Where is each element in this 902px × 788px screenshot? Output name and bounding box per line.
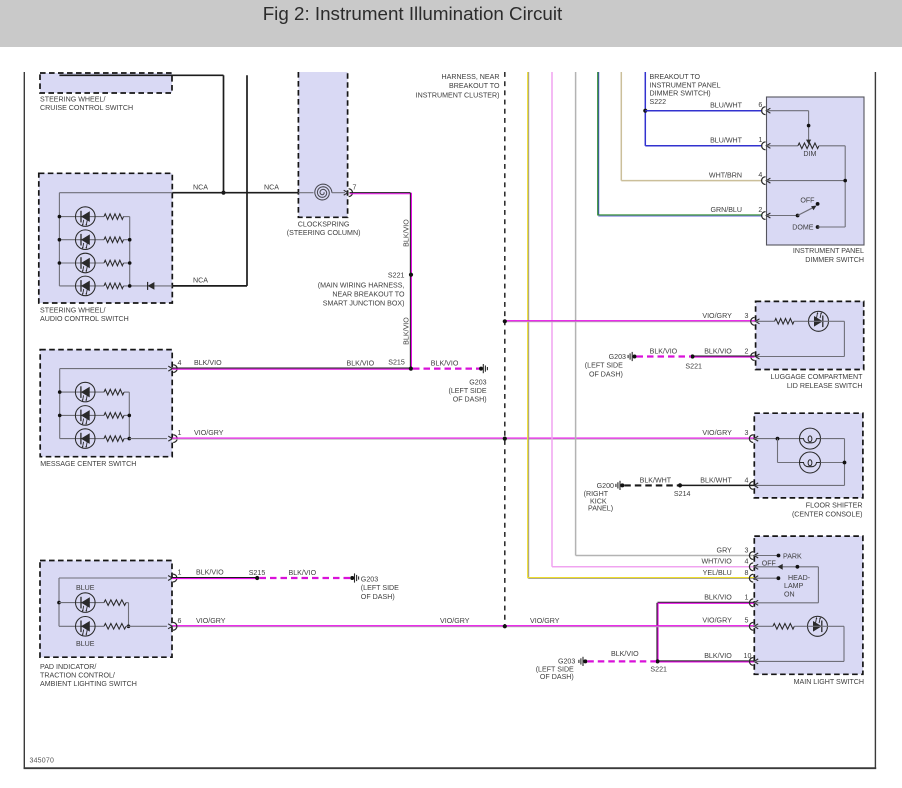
svg-text:S221: S221 (650, 666, 667, 674)
svg-text:BLK/VIO: BLK/VIO (289, 569, 317, 577)
svg-text:S221: S221 (685, 362, 702, 370)
dimmer pin 6 connector (762, 107, 766, 115)
svg-text:6: 6 (758, 101, 762, 109)
node VIO/GRY junction bottom (503, 624, 507, 628)
svg-text:BLU/WHT: BLU/WHT (710, 101, 743, 109)
wire BLK/VIO dashed bottom (587, 660, 656, 662)
resistor dimmer DIM (798, 143, 819, 149)
main pin 1 connector (749, 599, 753, 607)
message right bus junction row2 (128, 414, 132, 418)
dimmer OFF contact (816, 202, 820, 206)
wire BLK/VIO main pin1 vertical (656, 603, 658, 662)
svg-text:VIO/GRY: VIO/GRY (702, 429, 732, 437)
ground G203 pad (350, 576, 354, 580)
clockspring coil (315, 184, 332, 200)
audio LED row 4 wire (59, 285, 104, 287)
svg-text:MAIN LIGHT SWITCH: MAIN LIGHT SWITCH (794, 678, 864, 686)
ground G203 luggage (633, 355, 637, 359)
svg-text:S214: S214 (674, 490, 691, 498)
pad LED1 row wire (59, 602, 104, 604)
resistor message row 2 (104, 413, 124, 419)
floor right bus junction (843, 461, 847, 465)
node S221 splice luggage (690, 354, 694, 358)
wire BLU/WHT to dimmer pin 1 (645, 145, 762, 147)
svg-text:7: 7 (353, 184, 357, 192)
luggage inner wire pin2 (756, 356, 845, 358)
wire BLK/VIO clockspring horizontal (350, 192, 411, 194)
audio left bus junction (58, 215, 62, 219)
svg-text:Fig 2: Instrument Illumination: Fig 2: Instrument Illumination Circuit (263, 3, 563, 24)
svg-text:ON: ON (784, 590, 795, 598)
svg-text:CLOCKSPRING: CLOCKSPRING (298, 220, 350, 228)
bulb floor 2 (800, 452, 821, 473)
diode audio output (148, 282, 155, 290)
main pin 5 connector (749, 622, 753, 630)
pad indicator/traction control/ambient lighting switch block (40, 561, 172, 658)
dimmer pin4 bus junction (843, 179, 847, 183)
dimmer inner wiper vertical (808, 111, 810, 141)
main inner pin5 wire (754, 625, 773, 627)
dimmer blade arrow (811, 206, 817, 211)
resistor audio row 2 (104, 237, 124, 243)
svg-text:OF DASH): OF DASH) (453, 396, 487, 404)
main inner pin1 wire (754, 602, 818, 604)
audio switch inner bus left (58, 193, 60, 286)
svg-text:DIMMER SWITCH: DIMMER SWITCH (805, 256, 864, 264)
svg-text:YEL/BLU: YEL/BLU (703, 569, 732, 577)
svg-text:BLU/WHT: BLU/WHT (710, 136, 743, 144)
svg-text:3: 3 (745, 546, 749, 554)
svg-text:PAD INDICATOR/: PAD INDICATOR/ (40, 663, 96, 671)
node S215 splice pad (255, 576, 259, 580)
LED message row 2 (75, 406, 95, 426)
svg-text:VIO/GRY: VIO/GRY (440, 617, 470, 625)
resistor audio row 3 (104, 260, 124, 266)
LED audio row 3 (76, 253, 96, 273)
audio LED row 2 wire (59, 239, 104, 241)
svg-text:1: 1 (178, 429, 182, 437)
resistor pad row2 (104, 624, 126, 630)
pad pin 1 connector (173, 574, 177, 582)
dimmer inner pin1 wire (767, 145, 798, 147)
dimmer pin 4 connector (762, 177, 766, 185)
svg-text:1: 1 (745, 594, 749, 602)
svg-text:PANEL): PANEL) (588, 505, 613, 513)
wire GRN/BLU to dimmer pin 2 (598, 214, 762, 216)
node VIO/GRY junction at breakout (503, 437, 507, 441)
luggage right bus (843, 321, 845, 356)
svg-text:BLK/VIO: BLK/VIO (402, 219, 410, 247)
wire YEL/BLU vertical (527, 72, 529, 578)
svg-text:NCA: NCA (193, 183, 208, 191)
frame bottom border (24, 767, 877, 769)
node VIO/GRY luggage junction (503, 319, 507, 323)
svg-text:S222: S222 (650, 98, 667, 106)
svg-text:BREAKOUT TO: BREAKOUT TO (650, 73, 701, 81)
svg-text:BLK/VIO: BLK/VIO (704, 347, 732, 355)
wire BLK/VIO to main pin 1 horizontal (658, 601, 755, 603)
main HEADLAMP contact (777, 576, 781, 580)
floor inner wire bulb2 right (821, 462, 845, 464)
wire cruise switch NCA vertical (223, 75, 225, 192)
floor pin 4 connector (749, 482, 753, 490)
dimmer switch pivot (796, 214, 800, 218)
svg-text:S215: S215 (388, 359, 405, 367)
luggage inner wire to LED (794, 320, 809, 322)
main light switch block (754, 536, 863, 674)
ground G203 at S215 (479, 367, 483, 371)
bulb floor 1 (800, 428, 821, 449)
wire WHT/VIO vertical (551, 72, 553, 567)
wire WHT/BRN vertical (620, 72, 622, 181)
dimmer DOME contact (816, 225, 820, 229)
svg-text:BLK/VIO: BLK/VIO (704, 652, 732, 660)
main right bus vertical (817, 567, 819, 603)
main pin 4 connector (749, 563, 753, 571)
node S221 splice bottom (655, 659, 659, 663)
main pin 3 connector (749, 552, 753, 560)
svg-text:INSTRUMENT PANEL: INSTRUMENT PANEL (650, 81, 721, 89)
main inner wire LED to bus (828, 625, 845, 627)
resistor message row 3 (104, 436, 124, 442)
wire VIO/GRY pad to main pin 5 (172, 625, 754, 627)
svg-text:S215: S215 (249, 569, 266, 577)
wire cruise switch NCA horizontal (59, 74, 223, 76)
svg-text:WHT/VIO: WHT/VIO (701, 558, 732, 566)
wire WHT/VIO to main pin 4 (552, 566, 754, 568)
svg-text:(LEFT SIDE: (LEFT SIDE (448, 387, 486, 395)
svg-text:OF DASH): OF DASH) (589, 370, 623, 378)
svg-text:CRUISE CONTROL SWITCH: CRUISE CONTROL SWITCH (40, 104, 133, 112)
message right bus junction row3 (128, 437, 132, 441)
floor left bus (777, 439, 779, 463)
message center left bus junction row2 (58, 414, 62, 418)
svg-text:BLK/VIO: BLK/VIO (196, 569, 224, 577)
svg-text:STEERING WHEEL/: STEERING WHEEL/ (40, 306, 105, 314)
svg-text:DIMMER SWITCH): DIMMER SWITCH) (650, 90, 711, 98)
svg-text:2: 2 (745, 347, 749, 355)
wire BLK/WHT dashed to G200 (624, 484, 678, 486)
svg-text:8: 8 (745, 569, 749, 577)
wire BLK/VIO dashed pad to G203 (260, 577, 351, 579)
floor inner wire bulb1 right (821, 438, 845, 440)
svg-text:VIO/GRY: VIO/GRY (702, 312, 732, 320)
svg-text:G200: G200 (597, 482, 614, 490)
clockspring block (298, 72, 347, 217)
pad right junction (127, 625, 131, 629)
svg-text:VIO/GRY: VIO/GRY (194, 429, 224, 437)
LED main light (808, 616, 828, 636)
svg-text:(MAIN WIRING HARNESS,: (MAIN WIRING HARNESS, (318, 281, 405, 289)
svg-text:OFF: OFF (800, 196, 815, 204)
svg-text:BLUE: BLUE (76, 584, 95, 592)
pad pin 6 connector (173, 622, 177, 630)
steering wheel/cruise control switch block (40, 73, 172, 93)
svg-text:345070: 345070 (30, 758, 55, 765)
svg-text:DIM: DIM (803, 150, 816, 158)
main inner pin8 wire (754, 577, 778, 579)
svg-text:GRY: GRY (717, 546, 733, 554)
svg-text:5: 5 (745, 617, 749, 625)
svg-text:VIO/GRY: VIO/GRY (530, 617, 560, 625)
LED luggage (809, 311, 829, 331)
wire NCA audio lower vertical (246, 75, 248, 286)
wire BLK/VIO pad to S215 (172, 577, 257, 579)
svg-text:S221: S221 (388, 272, 405, 280)
svg-text:6: 6 (178, 617, 182, 625)
message center switch block (40, 350, 172, 457)
message center inner pin1 wire (129, 438, 167, 440)
svg-text:LAMP: LAMP (784, 582, 804, 590)
wire breakout continuation dashed vertical (504, 72, 506, 626)
floor left junction (776, 437, 780, 441)
svg-text:BLK/WHT: BLK/WHT (640, 476, 672, 484)
svg-text:3: 3 (745, 429, 749, 437)
message center LED row 1 wire (60, 391, 104, 393)
wire VIO/GRY message to floor shifter (172, 437, 754, 439)
wire BLU/WHT vertical (644, 72, 646, 146)
luggage compartment lid release switch block (756, 301, 864, 369)
LED pad row2 (76, 617, 96, 637)
main blade arrow (778, 564, 783, 570)
luggage pin 3 connector (751, 317, 755, 325)
wire BLU/WHT to dimmer pin 6 (645, 110, 762, 112)
svg-text:1: 1 (758, 136, 762, 144)
svg-text:1: 1 (178, 569, 182, 577)
ground G200 (620, 483, 624, 487)
svg-text:BLK/VIO: BLK/VIO (347, 359, 375, 367)
LED message row 3 (75, 429, 95, 449)
node S222 splice (643, 109, 647, 113)
message center inner pin4 wire (60, 368, 167, 370)
LED message row 1 (75, 382, 95, 402)
svg-text:BREAKOUT TO: BREAKOUT TO (449, 82, 500, 90)
message center left bus junction row1 (58, 390, 62, 394)
instrument panel dimmer switch block (767, 97, 865, 245)
LED pad row1 (76, 593, 96, 613)
dimmer inner pin2 wire (767, 215, 798, 217)
svg-text:4: 4 (745, 558, 749, 566)
svg-text:INSTRUMENT PANEL: INSTRUMENT PANEL (793, 247, 864, 255)
message center left bus (59, 369, 61, 439)
floor inner wire bulb2 left (778, 462, 800, 464)
svg-text:(LEFT SIDE: (LEFT SIDE (361, 584, 399, 592)
message center right bus (128, 392, 130, 439)
wire BLK/VIO S221 to main pin 10 (658, 660, 755, 662)
wire GRY vertical (575, 72, 577, 556)
floor shifter block (754, 413, 863, 498)
pad inner pin1 wire (59, 577, 167, 579)
audio right bus junction (128, 284, 132, 288)
svg-text:(STEERING COLUMN): (STEERING COLUMN) (287, 229, 361, 237)
wire YEL/BLU to main pin 8 (528, 577, 754, 579)
frame left border (23, 72, 25, 769)
dimmer wiper arrow (806, 140, 811, 145)
svg-text:LID RELEASE SWITCH: LID RELEASE SWITCH (787, 382, 863, 390)
svg-text:4: 4 (758, 171, 762, 179)
svg-text:BLK/VIO: BLK/VIO (704, 594, 732, 602)
node S214 splice (678, 483, 682, 487)
pad left junction (57, 601, 61, 605)
svg-text:INSTRUMENT CLUSTER): INSTRUMENT CLUSTER) (416, 92, 500, 100)
main inner pin3 wire (754, 555, 778, 557)
ground G203 bottom (583, 659, 587, 663)
steering wheel/audio control switch block (39, 173, 173, 303)
svg-text:OF DASH): OF DASH) (540, 673, 574, 681)
main inner wire to LED (794, 625, 807, 627)
resistor audio row 4 (104, 283, 124, 289)
dimmer inner pin6 wire (767, 110, 809, 112)
resistor luggage (775, 319, 794, 325)
wire BLK/VIO dashed to G203 (413, 368, 479, 370)
clockspring inner wire left (298, 192, 313, 194)
wire BLK/VIO S221 to luggage (693, 355, 755, 357)
dimmer DOME wire (818, 226, 846, 228)
svg-text:G203: G203 (469, 378, 486, 386)
svg-text:4: 4 (745, 476, 749, 484)
svg-text:(LEFT SIDE: (LEFT SIDE (585, 362, 623, 370)
svg-text:VIO/GRY: VIO/GRY (702, 617, 732, 625)
svg-text:STEERING WHEEL/: STEERING WHEEL/ (40, 96, 105, 104)
main PARK contact (777, 554, 781, 558)
svg-text:NCA: NCA (193, 277, 208, 285)
frame right border (874, 72, 876, 769)
message center LED row 2 wire (60, 414, 104, 416)
svg-text:BLK/WHT: BLK/WHT (700, 476, 732, 484)
resistor audio row 1 (104, 214, 124, 220)
svg-text:(CENTER CONSOLE): (CENTER CONSOLE) (792, 510, 863, 518)
wire BLK/VIO vertical to S215 (409, 193, 411, 369)
node S221 splice on BLK/VIO (409, 273, 413, 277)
svg-text:SMART JUNCTION BOX): SMART JUNCTION BOX) (323, 300, 405, 308)
audio inner top wire (59, 192, 172, 194)
svg-text:HEAD-: HEAD- (788, 574, 811, 582)
pad LED2 row wire (59, 625, 104, 627)
floor shifter pin 3 connector (749, 435, 753, 443)
svg-text:4: 4 (178, 359, 182, 367)
resistor pad row1 (104, 600, 126, 606)
svg-text:HARNESS, NEAR: HARNESS, NEAR (442, 73, 500, 81)
dimmer right bus vertical (844, 146, 846, 227)
svg-text:G203: G203 (609, 353, 626, 361)
audio right bus junction (128, 261, 132, 265)
svg-text:FLOOR SHIFTER: FLOOR SHIFTER (806, 501, 863, 509)
pad right bus (128, 603, 130, 627)
main inner pin4 wire (754, 566, 818, 568)
wire WHT/BRN to dimmer pin 4 (621, 180, 762, 182)
svg-text:OF DASH): OF DASH) (361, 593, 395, 601)
main inner pin10 wire (754, 660, 844, 662)
title bar (0, 0, 902, 47)
message center LED row 3 wire (60, 438, 104, 440)
clockspring inner wire right (332, 192, 345, 194)
pad left bus (58, 578, 60, 626)
node NCA junction (221, 191, 225, 195)
main right bus 2 (843, 626, 845, 661)
dimmer wiper junction (807, 124, 811, 128)
svg-text:MESSAGE CENTER SWITCH: MESSAGE CENTER SWITCH (40, 460, 136, 468)
svg-text:VIO/GRY: VIO/GRY (196, 617, 226, 625)
luggage pin 2 connector (751, 353, 755, 361)
svg-text:NEAR BREAKOUT TO: NEAR BREAKOUT TO (332, 291, 405, 299)
wire VIO/GRY breakout to luggage pin 3 (505, 320, 756, 322)
svg-text:BLK/VIO: BLK/VIO (650, 347, 678, 355)
wire NCA audio to clockspring (172, 192, 298, 194)
wire BLK/VIO dashed luggage to G203 (637, 355, 692, 357)
dimmer pin 2 connector (762, 212, 766, 220)
svg-text:DOME: DOME (792, 224, 814, 232)
audio right bus junction (128, 238, 132, 242)
svg-text:G203: G203 (361, 575, 378, 583)
svg-text:G203: G203 (558, 658, 575, 666)
svg-text:BLK/VIO: BLK/VIO (431, 359, 459, 367)
luggage inner wire pin3 (756, 320, 775, 322)
wire BLK/WHT S214 to floor (680, 484, 754, 486)
wire BLK/VIO message to S215 (172, 367, 410, 369)
luggage inner wire LED to bus (829, 320, 845, 322)
svg-text:BLUE: BLUE (76, 640, 95, 648)
clockspring pin 7 connector (349, 189, 353, 197)
resistor main light (773, 624, 794, 630)
dimmer switch blade (798, 207, 814, 215)
svg-text:AMBIENT LIGHTING SWITCH: AMBIENT LIGHTING SWITCH (40, 680, 137, 688)
svg-text:AUDIO CONTROL SWITCH: AUDIO CONTROL SWITCH (40, 315, 129, 323)
svg-text:BLK/VIO: BLK/VIO (194, 359, 222, 367)
floor inner wire pin4 (754, 484, 844, 486)
main pin 10 connector (749, 658, 753, 666)
audio left bus junction (58, 261, 62, 265)
svg-text:LUGGAGE COMPARTMENT: LUGGAGE COMPARTMENT (771, 373, 864, 381)
dimmer inner pin4 wire (767, 180, 846, 182)
node S215 splice (409, 367, 413, 371)
main pin 8 connector (749, 574, 753, 582)
svg-text:OFF: OFF (762, 560, 777, 568)
audio right bus (129, 217, 131, 286)
main switch pivot (796, 565, 800, 569)
dimmer pin 1 connector (762, 142, 766, 150)
svg-text:BLK/VIO: BLK/VIO (611, 650, 639, 658)
floor inner wire pin3 (754, 438, 799, 440)
LED audio row 2 (76, 230, 96, 250)
svg-text:BLK/VIO: BLK/VIO (402, 317, 410, 345)
wire NCA audio lower horizontal (172, 285, 247, 287)
audio LED row 3 wire (59, 262, 104, 264)
dimmer inner wire resistor to right bus (819, 145, 845, 147)
svg-text:3: 3 (745, 312, 749, 320)
floor right bus (844, 439, 846, 486)
wire GRN/BLU vertical (597, 72, 599, 216)
LED audio row 1 (76, 207, 96, 227)
audio LED row 1 wire (59, 216, 104, 218)
svg-text:WHT/BRN: WHT/BRN (709, 171, 742, 179)
LED audio row 4 (76, 276, 96, 296)
message center pin 1 connector (173, 435, 177, 443)
resistor message row 1 (104, 389, 124, 395)
svg-text:NCA: NCA (264, 183, 279, 191)
svg-text:2: 2 (758, 206, 762, 214)
svg-text:GRN/BLU: GRN/BLU (710, 206, 742, 214)
message center pin 4 connector (173, 365, 177, 373)
wire GRY to main pin 3 (576, 555, 755, 557)
svg-text:TRACTION CONTROL/: TRACTION CONTROL/ (40, 671, 115, 679)
svg-text:PARK: PARK (783, 552, 802, 560)
audio left bus junction (58, 238, 62, 242)
